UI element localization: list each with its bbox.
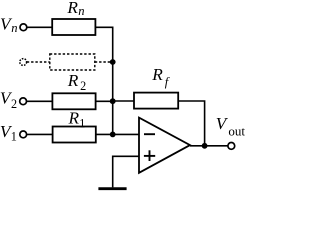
svg-text:R: R xyxy=(68,109,80,128)
terminal Vout xyxy=(228,143,235,150)
wire V2 to R2 xyxy=(27,100,53,102)
terminal V1 xyxy=(20,131,27,138)
wire R1 to op-amp inverting input xyxy=(96,133,139,135)
wire bus segment dashed-node to R2-node xyxy=(112,62,114,101)
svg-text:R: R xyxy=(67,71,79,90)
svg-text:2: 2 xyxy=(11,97,17,111)
resistor R1 xyxy=(53,127,96,143)
wire bus segment R2-node to R1-node xyxy=(112,101,114,134)
terminal Vn xyxy=(20,24,27,31)
resistor Rn xyxy=(52,19,95,35)
wire bus to Rf xyxy=(113,100,134,102)
wire Rn to bus (top corner) xyxy=(95,27,112,62)
resistor Rf xyxy=(134,93,178,109)
op-amp U1 xyxy=(139,118,190,173)
terminal V2 xyxy=(20,98,27,105)
resistor R2 xyxy=(52,93,95,109)
svg-text:1: 1 xyxy=(79,117,85,131)
wire op-amp output to Vout xyxy=(190,145,228,147)
junction dot R1/inverting node xyxy=(110,132,116,138)
wire op-amp noninverting input to ground xyxy=(113,156,139,187)
op-amp minus sign xyxy=(144,133,155,135)
junction dot dashed row xyxy=(110,59,116,65)
svg-text:out: out xyxy=(228,123,245,138)
wire Rf to output node xyxy=(178,101,204,146)
resistor dashed optional xyxy=(50,54,95,70)
junction dot R2/Rf node xyxy=(110,98,116,104)
dashed wire to bus xyxy=(95,61,111,63)
junction dot output node xyxy=(202,143,208,149)
wire R2 to bus xyxy=(96,100,113,102)
dashed wire to dashed resistor xyxy=(27,61,50,63)
wire Vn to Rn xyxy=(27,26,52,28)
svg-text:1: 1 xyxy=(11,130,17,144)
ground xyxy=(98,187,126,190)
svg-text:R: R xyxy=(66,0,78,17)
wire V1 to R1 xyxy=(27,133,53,135)
svg-text:2: 2 xyxy=(80,79,86,93)
op-amp plus sign xyxy=(144,155,155,157)
svg-text:n: n xyxy=(78,4,84,18)
svg-text:R: R xyxy=(151,65,163,84)
terminal dashed optional input xyxy=(20,59,27,66)
svg-text:n: n xyxy=(11,21,17,35)
